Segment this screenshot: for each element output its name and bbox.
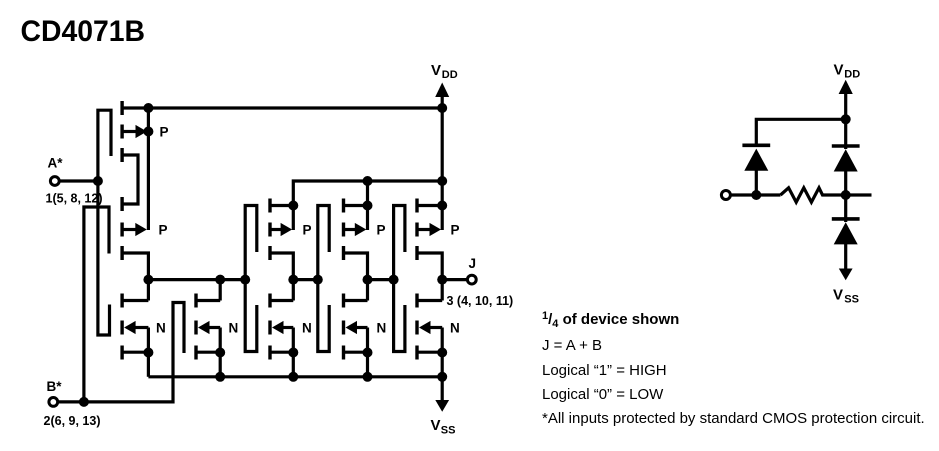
output terminal J circle	[467, 275, 476, 284]
wire N5 source down to VSS rail	[441, 353, 444, 377]
svg-text:N: N	[302, 320, 312, 335]
svg-text:*All inputs protected by stand: *All inputs protected by standard CMOS p…	[542, 410, 925, 427]
wire N1 source to VSS rail corner	[147, 353, 150, 377]
transistor P3 (PMOS inverter 1)	[268, 199, 298, 280]
power VSS terminal (protection circuit)	[833, 269, 859, 306]
wire output node to terminal J	[442, 278, 466, 281]
svg-text:P: P	[159, 222, 168, 237]
svg-text:V: V	[431, 417, 441, 434]
svg-text:B*: B*	[47, 379, 63, 394]
node VSS rail dot at N2	[215, 372, 225, 382]
transistor N5 (NMOS output inverter)	[415, 280, 447, 360]
wire node B to gate of N2 (right-up bracket)	[84, 303, 184, 402]
node n1 dot at P2/N1 drains	[143, 275, 153, 285]
wire gate of N1 from node A (down-right hook)	[98, 181, 110, 335]
wire P2 drain down to node n1	[123, 253, 148, 280]
transistor P1 (PMOS, gate A)	[120, 101, 153, 162]
wire P1 drain to P2 source (S-bend)	[123, 155, 138, 204]
transistor P4 (PMOS inverter 2)	[342, 199, 373, 280]
node VSS rail dot at N4	[363, 372, 373, 382]
input terminal A* with label	[48, 156, 98, 186]
svg-text:N: N	[156, 320, 166, 335]
node n3 dot at P4/N4 drains	[363, 275, 373, 285]
wire gate of P2 from node B (up-right bracket)	[84, 207, 109, 402]
wire stub right of gate node	[846, 193, 872, 196]
transistor N4 (NMOS inverter 2)	[342, 280, 373, 360]
note 1/4 of device shown	[542, 310, 679, 330]
label J	[469, 256, 477, 271]
svg-text:V: V	[834, 62, 844, 79]
node n2 dot at P3/N3 drains	[288, 275, 298, 285]
input terminal (protection circuit)	[721, 191, 780, 200]
wire rail2 drop to P4 top lead	[366, 181, 369, 206]
svg-text:V: V	[431, 62, 441, 79]
svg-text:SS: SS	[844, 294, 859, 306]
wire VDD vertical (x=442) from arrow down to P5 top	[441, 108, 444, 206]
wire VSS bottom rail	[148, 375, 442, 378]
transistor N2 (NMOS, gate B)	[194, 280, 225, 360]
label N (N5)	[450, 320, 460, 335]
wire node n1 horizontal (NOR output)	[148, 278, 245, 281]
svg-text:N: N	[377, 320, 387, 335]
power VDD terminal (left schematic) with up arrow	[431, 62, 458, 108]
svg-text:2(6, 9, 13): 2(6, 9, 13)	[44, 414, 101, 428]
diode D2 (gate node to VDD clamp, right top)	[832, 119, 860, 195]
svg-text:N: N	[450, 320, 460, 335]
svg-text:Logical “1” = HIGH: Logical “1” = HIGH	[542, 362, 667, 379]
resistor R1 (series protection resistor)	[781, 188, 846, 202]
node A junction dot	[93, 176, 103, 186]
node n2 dot at inverter-2 gate	[313, 275, 323, 285]
svg-text:P: P	[377, 222, 386, 237]
label N (N4)	[377, 320, 387, 335]
wire inverter-2 gate bracket (input n2, drives P4/N4)	[318, 206, 329, 352]
svg-text:J = A + B: J = A + B	[542, 337, 602, 354]
svg-text:N: N	[229, 320, 239, 335]
node n3 dot at inverter-3 gate	[389, 275, 399, 285]
svg-text:DD: DD	[844, 69, 860, 81]
label P (P3)	[303, 222, 312, 237]
node B junction dot	[79, 397, 89, 407]
svg-text:1(5, 8, 12): 1(5, 8, 12)	[46, 192, 103, 206]
node junction dot (gate node)	[841, 190, 851, 200]
power VSS terminal (left schematic) with down arrow	[431, 377, 456, 437]
note Logical 0 = LOW	[542, 386, 664, 403]
node n1 dot at N2 drain	[215, 275, 225, 285]
wire node n3 horizontal	[368, 278, 394, 281]
power VDD terminal (protection circuit)	[834, 62, 861, 120]
node junction dot on top rail at VDD vertical	[437, 103, 447, 113]
label P (P4)	[377, 222, 386, 237]
diode D1 (input to VDD clamp, left)	[742, 145, 770, 195]
note all inputs protected	[542, 410, 925, 427]
svg-text:SS: SS	[441, 425, 456, 437]
node output dot at P5/N5 drains	[437, 275, 447, 285]
node junction dot on top rail at P1 source	[143, 103, 153, 113]
svg-text:P: P	[160, 124, 169, 139]
pin label 1(5, 8, 12)	[46, 192, 103, 206]
wire N3 source down to VSS rail	[292, 353, 295, 377]
title CD4071B	[21, 15, 146, 48]
pin label 2(6, 9, 13)	[44, 414, 101, 428]
label P (P5)	[451, 222, 460, 237]
wire P1 source/bulk vertical tie down to P2 bulk arrow	[147, 108, 150, 230]
wire N2 source down to VSS rail	[219, 353, 222, 377]
transistor P5 (PMOS output inverter)	[415, 199, 447, 280]
label P (P2)	[159, 222, 168, 237]
node n1 dot at inverter-1 gate	[240, 275, 250, 285]
input terminal B* with label	[47, 379, 84, 406]
wire inverter-1 gate bracket (input n1, drives P3/N3)	[245, 206, 257, 352]
transistor P2 (PMOS, gate B)	[120, 197, 146, 260]
label P (P1)	[160, 124, 169, 139]
node VSS rail dot at N3	[288, 372, 298, 382]
label N (N1)	[156, 320, 166, 335]
svg-text:1/4 of device shown: 1/4 of device shown	[542, 310, 679, 330]
node input junction dot	[751, 190, 761, 200]
node junction dot VDD branch	[841, 114, 851, 124]
note Logical 1 = HIGH	[542, 362, 667, 379]
wire VDD top rail from P1 drain-lead to VDD vertical	[123, 106, 442, 109]
svg-text:P: P	[303, 222, 312, 237]
label N (N2)	[229, 320, 239, 335]
pin label 3 (4, 10, 11)	[447, 294, 514, 308]
node VSS rail dot at N5/arrow	[437, 372, 447, 382]
svg-text:DD: DD	[442, 69, 458, 81]
wire node n2 horizontal	[293, 278, 318, 281]
note J = A + B	[542, 337, 602, 354]
svg-text:P: P	[451, 222, 460, 237]
transistor N1 (NMOS, gate A)	[120, 280, 153, 360]
svg-text:3 (4, 10, 11): 3 (4, 10, 11)	[447, 294, 514, 308]
wire gate of P1 from node A (up-right bracket)	[98, 110, 111, 181]
label N (N3)	[302, 320, 312, 335]
svg-text:CD4071B: CD4071B	[21, 15, 146, 48]
svg-text:Logical “0” = LOW: Logical “0” = LOW	[542, 386, 664, 403]
node junction dot rail2 / P4 branch	[363, 176, 373, 186]
wire top branch to left diode	[756, 119, 845, 144]
svg-text:V: V	[833, 287, 843, 304]
transistor N3 (NMOS inverter 1)	[268, 280, 298, 360]
svg-text:A*: A*	[48, 156, 64, 171]
wire N4 source down to VSS rail	[366, 353, 369, 377]
diode D3 (VSS to gate node clamp, right bottom)	[832, 195, 860, 269]
node junction dot rail2 / VDD vertical	[437, 176, 447, 186]
wire inverter-3 gate bracket (input n3, drives P5/N5)	[394, 206, 405, 352]
svg-text:J: J	[469, 256, 477, 271]
wire VDD rail 2 from x=293 corner to x=442 with drop to P3 top	[293, 181, 442, 206]
